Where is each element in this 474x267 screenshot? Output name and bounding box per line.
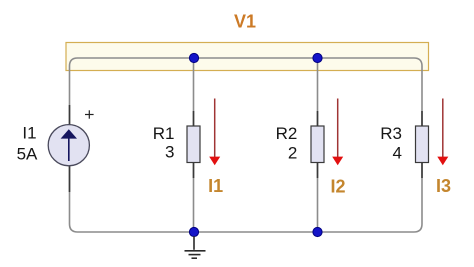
svg-text:I2: I2	[330, 177, 345, 197]
svg-text:R1: R1	[153, 124, 175, 143]
current arrow I1	[209, 99, 220, 166]
voltage probe box V1	[66, 43, 429, 71]
node dot top R1	[189, 53, 198, 62]
node dot bottom ground	[189, 227, 198, 236]
lead R2 top	[317, 111, 319, 126]
wire branch R2 top	[317, 58, 319, 126]
current source I1	[48, 125, 89, 166]
label R2 2	[276, 124, 298, 162]
svg-text:I1: I1	[208, 176, 223, 196]
svg-text:3: 3	[165, 143, 174, 162]
lead R3 top	[421, 111, 423, 126]
lead R1 top	[193, 111, 195, 126]
svg-text:I3: I3	[436, 176, 451, 196]
ground	[185, 236, 206, 258]
wire branch R2 bottom	[317, 163, 319, 233]
svg-text:R3: R3	[380, 124, 402, 143]
lead I1 top	[69, 105, 71, 125]
current arrow I3	[437, 99, 448, 166]
current arrow I2	[332, 99, 343, 166]
lead I1 bottom	[69, 166, 71, 192]
lead R2 bottom	[317, 163, 319, 179]
label R1 3	[153, 124, 175, 161]
wire branch R1 bottom	[193, 163, 195, 233]
svg-text:R2: R2	[276, 124, 298, 143]
wire top rail	[70, 58, 423, 126]
lead R3 bottom	[421, 163, 423, 179]
svg-text:V1: V1	[234, 12, 256, 32]
label R3 4	[380, 124, 402, 162]
resistor R1	[187, 126, 200, 163]
svg-text:4: 4	[393, 143, 402, 162]
node dot bottom R2	[313, 227, 322, 236]
plus sign	[85, 110, 94, 118]
wire branch R1 top	[193, 58, 195, 126]
svg-text:5A: 5A	[17, 144, 38, 163]
node dot top R2	[313, 53, 322, 62]
svg-text:2: 2	[288, 143, 297, 162]
label I1 5A	[17, 124, 38, 164]
lead R1 bottom	[193, 163, 195, 179]
resistor R2	[311, 126, 324, 163]
resistor R3	[416, 126, 429, 163]
svg-text:I1: I1	[22, 124, 36, 143]
wire bottom rail	[70, 163, 423, 233]
